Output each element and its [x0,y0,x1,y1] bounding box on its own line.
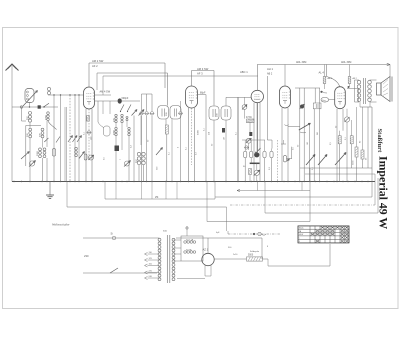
svg-text:30Ω: 30Ω [163,231,167,233]
svg-text:AM 2 SW: AM 2 SW [92,59,104,63]
svg-text:25t: 25t [155,196,159,199]
svg-text:1M: 1M [307,142,309,145]
svg-text:3000: 3000 [37,150,39,156]
svg-text:80pF: 80pF [200,92,206,95]
svg-text:10t: 10t [207,132,210,135]
svg-text:L: L [299,238,300,240]
svg-text:230: 230 [84,254,89,258]
svg-text:4V 2A: 4V 2A [186,249,192,252]
svg-text:AL 4: AL 4 [319,71,325,75]
svg-text:1M: 1M [224,137,226,140]
svg-text:Imperial 49 W: Imperial 49 W [376,156,390,229]
svg-text:AM 4 SW: AM 4 SW [100,91,111,94]
svg-text:4V 1,1A: 4V 1,1A [186,239,194,242]
svg-text:600pF: 600pF [122,97,129,100]
svg-text:AF 2: AF 2 [92,64,98,68]
svg-text:Staßfurt: Staßfurt [376,129,383,154]
svg-text:UKW: UKW [299,234,304,236]
svg-text:5000: 5000 [197,129,199,135]
svg-text:3000: 3000 [45,114,47,120]
svg-text:Wellenschalter: Wellenschalter [52,223,71,227]
svg-text:Reg: Reg [322,100,326,102]
svg-text:ADL 30M: ADL 30M [341,61,351,64]
svg-text:AH 1: AH 1 [267,67,273,71]
svg-text:Feldspule: Feldspule [250,251,260,253]
svg-text:AM 3 SW: AM 3 SW [197,67,209,71]
svg-text:ADL 30M: ADL 30M [296,61,306,64]
svg-text:5000: 5000 [248,255,254,257]
svg-text:2M: 2M [317,132,319,135]
svg-text:ABC 1: ABC 1 [240,70,248,74]
svg-text:AB 2: AB 2 [267,72,273,75]
svg-text:3000: 3000 [114,129,116,135]
svg-text:AF 3: AF 3 [197,71,203,75]
